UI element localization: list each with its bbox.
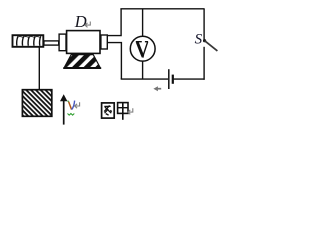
wire: bottom rail right of battery bbox=[174, 78, 205, 80]
label v bbox=[69, 102, 72, 110]
wire: top rail bbox=[120, 8, 204, 10]
drum coil windings bbox=[17, 36, 41, 46]
velocity arrow up bbox=[63, 100, 65, 125]
motor right end cap bbox=[101, 35, 107, 49]
return mark after D bbox=[85, 22, 90, 28]
switch pivot dot bbox=[203, 39, 206, 42]
winch drum bbox=[13, 35, 44, 47]
current direction arrow (gray) bbox=[157, 88, 161, 90]
battery short negative plate bbox=[172, 75, 174, 84]
label 甲 bbox=[118, 103, 128, 120]
spellcheck squiggle under v bbox=[68, 114, 75, 116]
wire: motor lower terminal to bottom rail bbox=[108, 43, 122, 80]
shaft between drum and motor bbox=[44, 41, 59, 45]
wire: voltmeter to bottom rail bbox=[142, 61, 144, 79]
wire: right side below switch bbox=[203, 47, 205, 80]
voltmeter V letter bbox=[136, 42, 148, 57]
rope from drum to block bbox=[38, 47, 40, 91]
label 图 (figure) bbox=[102, 103, 115, 118]
switch blade bbox=[205, 41, 218, 51]
svg-text:S: S bbox=[195, 31, 203, 47]
motor D body bbox=[67, 31, 100, 54]
return mark after v bbox=[75, 102, 80, 108]
motor left end cap bbox=[59, 34, 66, 51]
wire: motor upper terminal to top rail bbox=[108, 9, 122, 36]
voltmeter circle bbox=[130, 36, 155, 61]
return mark after 图甲 bbox=[128, 108, 133, 114]
wire: voltmeter branch from top rail bbox=[142, 9, 144, 36]
battery long positive plate bbox=[168, 69, 170, 89]
wire: right side above switch bbox=[203, 9, 205, 41]
support base line bbox=[63, 67, 101, 69]
hanging block (hatched) bbox=[22, 90, 51, 117]
drum coil top connectors bbox=[17, 36, 40, 39]
wire: bottom rail left of battery bbox=[121, 78, 168, 80]
motor support stand (hatched trapezoid) bbox=[64, 55, 100, 68]
svg-text:D: D bbox=[74, 12, 87, 31]
